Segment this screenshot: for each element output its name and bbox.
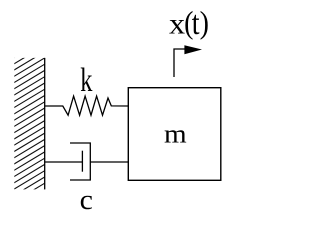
wall vertical line: [44, 58, 46, 190]
wall hatching: [8, 39, 44, 218]
displacement arrow x(t): [174, 49, 186, 77]
damper piston plate: [81, 151, 83, 172]
mass box m: [128, 88, 221, 181]
svg-text:m: m: [164, 120, 187, 149]
svg-text:c: c: [80, 185, 93, 216]
damper cup (open left): [70, 143, 90, 180]
spring k (zigzag with leads): [45, 96, 129, 115]
label x(t): [169, 4, 209, 42]
arrowhead: [184, 45, 202, 54]
damper rod right (cup to mass): [90, 161, 128, 163]
svg-text:): ): [200, 4, 209, 40]
svg-text:k: k: [80, 61, 92, 99]
damper rod left (wall to piston): [45, 161, 83, 163]
